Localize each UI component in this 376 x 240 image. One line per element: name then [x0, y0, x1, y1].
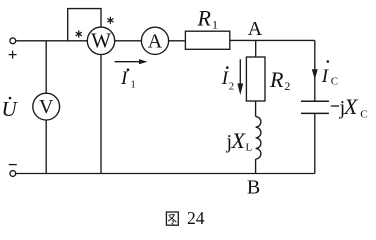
wire (R2 to inductor) — [255, 101, 257, 117]
wire (junction down to voltmeter) — [45, 41, 47, 93]
svg-text:2: 2 — [229, 82, 234, 93]
wattmeter U1 W — [87, 27, 114, 54]
value label jXL — [226, 128, 253, 154]
wire (W to A) — [115, 40, 142, 42]
svg-text:A: A — [148, 30, 163, 52]
svg-text:C: C — [360, 109, 367, 121]
svg-text:2: 2 — [284, 79, 290, 93]
current arrow I2 — [237, 59, 243, 95]
label I1 (phasor current) — [120, 68, 136, 91]
wire (R1 to right corner, through node A) — [230, 39, 315, 41]
capacitor -jXC plates — [301, 101, 329, 113]
svg-text:1: 1 — [131, 80, 136, 91]
wire (voltmeter to bottom rail) — [45, 120, 47, 174]
value label R1 — [197, 6, 219, 32]
svg-text:I: I — [120, 68, 129, 89]
svg-text:B: B — [247, 177, 260, 199]
voltmeter V — [33, 93, 60, 120]
wire (inductor to bottom rail) — [255, 159, 257, 174]
wire (bottom rail) — [16, 173, 315, 175]
current arrow I1 — [115, 59, 148, 64]
svg-text:1: 1 — [212, 18, 218, 32]
svg-text:I: I — [321, 66, 330, 87]
wattmeter W current-coil loop — [68, 9, 101, 41]
label IC (phasor current) — [321, 60, 338, 87]
svg-text:W: W — [91, 29, 111, 53]
terminal + (top-left input terminal) — [10, 38, 16, 44]
svg-text:24: 24 — [187, 208, 205, 228]
label I2 (phasor current) — [221, 66, 234, 92]
terminal - (bottom-left input terminal) — [10, 171, 16, 177]
wire (capacitor to bottom rail) — [314, 113, 316, 173]
svg-text:X: X — [231, 128, 247, 153]
value label -jXC — [331, 94, 368, 121]
svg-text:U: U — [2, 97, 19, 121]
wire (A to R1) — [169, 40, 186, 42]
value label R2 — [269, 67, 290, 93]
label U (phasor voltage source) — [2, 97, 19, 121]
wire (right branch down to capacitor) — [314, 40, 316, 101]
svg-text:C: C — [331, 76, 338, 88]
wire (wattmeter voltage coil to bottom rail) — [100, 55, 102, 174]
wire (node A down to R2) — [255, 40, 257, 57]
current arrow IC (on right branch wire) — [312, 69, 318, 79]
wire (top terminal to wattmeter) — [16, 40, 88, 42]
label + (polarity plus sign) — [9, 51, 17, 59]
resistor R1 — [185, 31, 229, 49]
inductor jXL — [256, 117, 261, 159]
label - (polarity minus sign) — [9, 164, 17, 166]
svg-text:L: L — [246, 142, 253, 154]
resistor R2 — [246, 57, 265, 101]
svg-text:X: X — [343, 94, 359, 119]
caption figure character (drawn CJK glyph) — [166, 212, 178, 225]
polarity mark * (left of W) — [76, 30, 82, 37]
svg-text:V: V — [39, 96, 54, 118]
ammeter A — [141, 27, 168, 54]
svg-text:R: R — [269, 67, 284, 92]
polarity mark * (top-right of W) — [107, 17, 113, 24]
svg-text:R: R — [197, 6, 212, 31]
svg-text:A: A — [248, 18, 263, 40]
